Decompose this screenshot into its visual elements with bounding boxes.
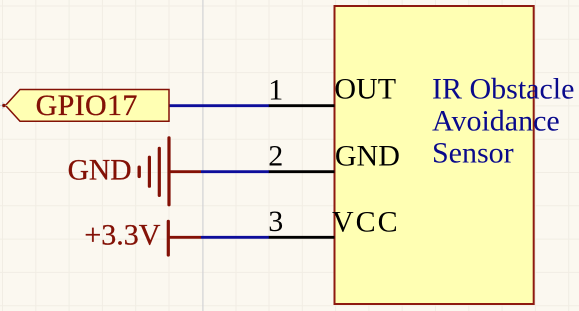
wire net +3.3V to pin 3	[201, 236, 269, 239]
component body U1 (IR Obstacle Avoidance Sensor)	[335, 6, 534, 304]
pin 3 line	[269, 236, 335, 239]
svg-text:2: 2	[268, 139, 283, 172]
power port GND bar 4 (tall)	[167, 138, 170, 205]
port GPIO17 hotspot cross	[0, 102, 7, 109]
svg-text:1: 1	[268, 73, 283, 106]
pin 1 line	[269, 104, 335, 107]
wire net GND to pin 2	[201, 170, 269, 173]
power port GND bar 1 (short)	[137, 167, 140, 176]
power port GND stub	[169, 170, 202, 173]
power port GND bar 2	[148, 157, 151, 186]
major grid line	[202, 0, 204, 311]
svg-text:Sensor: Sensor	[432, 137, 514, 170]
svg-text:+3.3V: +3.3V	[84, 219, 160, 252]
svg-text:GND: GND	[335, 140, 400, 173]
svg-text:Avoidance: Avoidance	[432, 105, 560, 138]
power port +3.3V bar	[167, 221, 170, 255]
svg-text:3: 3	[268, 205, 283, 238]
svg-text:IR Obstacle: IR Obstacle	[432, 73, 574, 106]
svg-text:OUT: OUT	[334, 72, 396, 105]
power port +3.3V stub	[168, 236, 201, 239]
svg-text:GND: GND	[68, 154, 132, 186]
port GPIO17 hotspot dot	[2, 104, 5, 107]
svg-text:GPIO17: GPIO17	[36, 89, 138, 122]
svg-text:VCC: VCC	[332, 205, 400, 238]
port GPIO17 flag	[6, 90, 170, 122]
pin 2 line	[269, 170, 335, 173]
wire net GPIO17 to pin 1	[168, 104, 269, 107]
power port GND bar 3	[158, 148, 161, 195]
